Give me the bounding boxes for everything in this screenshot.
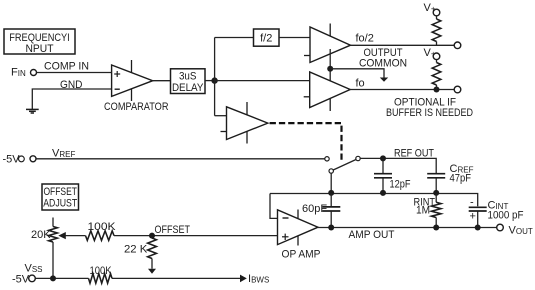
wire summing line: [270, 194, 478, 207]
switch S1: [325, 156, 360, 193]
ground: [26, 109, 39, 113]
wire f/2 to buffer: [279, 37, 310, 39]
buffer A1 (fo/2): [304, 24, 351, 63]
svg-text:22 K: 22 K: [124, 244, 148, 256]
node 12pF top: [380, 155, 386, 161]
svg-text:VREF: VREF: [52, 148, 75, 160]
offset adjust label box: [42, 184, 79, 210]
wire REF OUT: [360, 158, 436, 173]
wire trunk vertical: [214, 38, 216, 116]
wire dashed control: [268, 123, 342, 160]
terminal FIN: [31, 70, 37, 76]
capacitor 12pF: [374, 158, 392, 192]
svg-text:3uS: 3uS: [179, 70, 197, 82]
svg-text:fo/2: fo/2: [356, 33, 374, 45]
buffer A2 (fo): [304, 72, 351, 111]
svg-text:AMP OUT: AMP OUT: [349, 229, 395, 241]
arrow 22K to Vss: [148, 269, 156, 274]
svg-text:100K: 100K: [88, 221, 117, 233]
terminal VREF: [30, 156, 36, 162]
one-shot A3: [221, 102, 268, 144]
resistor pull-up upper: [432, 16, 441, 46]
svg-text:FIN: FIN: [11, 67, 26, 79]
svg-text:REF OUT: REF OUT: [394, 148, 434, 160]
wire trunk to buffer A2: [215, 80, 310, 82]
capacitor CREF 47pF: [427, 174, 445, 193]
node junction after delay: [211, 77, 217, 83]
svg-text:20K: 20K: [31, 229, 51, 241]
wire bottom rail: [35, 277, 88, 279]
terminal V+ lower: [433, 53, 440, 60]
svg-text:ADJUST: ADJUST: [43, 198, 77, 210]
svg-text:OP AMP: OP AMP: [282, 249, 321, 261]
node fo pull-up junction: [434, 87, 440, 93]
svg-text:100K: 100K: [90, 265, 113, 277]
wire trunk to one-shot: [215, 115, 227, 117]
terminal VSS: [29, 275, 36, 282]
wire fo/2 output: [351, 44, 455, 46]
wire output common: [330, 69, 384, 78]
svg-text:-5V: -5V: [12, 273, 30, 285]
resistor RINT 1M: [431, 194, 441, 228]
svg-text:GND: GND: [60, 79, 83, 91]
svg-text:+: +: [470, 211, 476, 223]
node RINT bottom: [433, 225, 439, 231]
wire offset line: [114, 235, 278, 237]
svg-text:VOUT: VOUT: [509, 225, 533, 237]
wire VREF: [36, 158, 324, 160]
svg-text:fo: fo: [356, 78, 365, 90]
svg-text:12pF: 12pF: [390, 179, 411, 191]
node CINT bottom: [475, 225, 481, 231]
arrow output common: [380, 78, 388, 82]
terminal V+ upper: [433, 9, 440, 16]
svg-text:-: -: [470, 197, 474, 209]
comparator U1: [112, 60, 153, 101]
divider box f/2: [254, 29, 280, 46]
svg-text:COMPARATOR: COMPARATOR: [104, 101, 169, 113]
svg-text:COMMON: COMMON: [359, 57, 407, 69]
terminal -5V small: [19, 156, 25, 162]
wire GND: [32, 89, 111, 109]
resistor 100K upper: [86, 231, 115, 241]
node 12pF bottom: [380, 190, 386, 196]
wire AMP OUT: [318, 227, 497, 229]
svg-text:1M: 1M: [416, 205, 430, 217]
arrow IBWS: [240, 275, 247, 283]
svg-text:COMP IN: COMP IN: [44, 61, 89, 73]
wire delay to trunk: [205, 80, 215, 82]
wire to IBWS: [112, 277, 241, 279]
svg-text:1000 pF: 1000 pF: [488, 210, 524, 222]
wire comparator to delay: [153, 80, 171, 82]
svg-text:DELAY: DELAY: [172, 82, 204, 94]
terminal VOUT: [497, 224, 504, 231]
capacitor 60pF: [322, 194, 340, 228]
resistor 22K: [148, 236, 157, 269]
resistor 100K lower: [89, 274, 113, 284]
wire fo output: [350, 89, 454, 91]
frequency input label box: [4, 29, 75, 55]
wire to f/2 box: [215, 37, 254, 39]
node output common: [327, 66, 333, 72]
svg-text:-5V: -5V: [3, 154, 21, 166]
wire COMP IN: [37, 72, 112, 74]
wiper arrow: [58, 232, 66, 239]
svg-text:IBWS: IBWS: [248, 273, 269, 285]
delay box 3uS DELAY: [171, 69, 206, 94]
node offset junction: [149, 233, 155, 239]
svg-text:OFFSET: OFFSET: [155, 224, 191, 236]
svg-text:BUFFER IS NEEDED: BUFFER IS NEEDED: [386, 107, 473, 119]
svg-text:f/2: f/2: [260, 33, 272, 45]
node CREF bottom: [433, 190, 439, 196]
node op-amp output: [328, 225, 334, 231]
buffer common tie: [329, 49, 331, 84]
terminal fo/2 output: [454, 42, 461, 49]
resistor pull-up lower: [432, 60, 441, 90]
svg-text:OFFSET: OFFSET: [43, 186, 77, 198]
svg-text:NPUT: NPUT: [26, 43, 54, 55]
svg-text:47pF: 47pF: [450, 173, 472, 185]
svg-text:60pF: 60pF: [302, 203, 327, 215]
capacitor CINT 1000pF: [469, 197, 487, 228]
node pot bottom: [50, 275, 56, 281]
terminal fo output: [454, 86, 461, 93]
potentiometer 20K: [49, 218, 58, 279]
node switch drop: [328, 190, 334, 196]
op-amp U2: [278, 210, 319, 246]
